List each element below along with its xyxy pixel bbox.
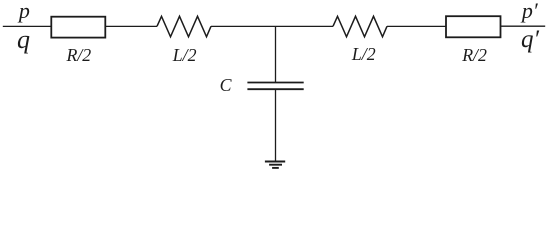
node q label <box>17 27 30 53</box>
value label C <box>220 77 232 95</box>
inductor L/2 (right, zigzag) <box>333 16 387 37</box>
resistor R/2 (right) <box>446 16 501 37</box>
resistor R/2 (left) <box>51 17 105 38</box>
wire R/2 to right terminal <box>501 25 546 27</box>
value label R/2 right <box>462 47 487 65</box>
value label L/2 left <box>173 47 197 65</box>
wire left terminal to R/2 <box>3 25 52 27</box>
ground <box>265 162 285 168</box>
capacitor C top plate <box>247 82 303 84</box>
node p' label <box>522 0 538 22</box>
value label L/2 right <box>352 46 376 64</box>
wire capacitor stem bottom <box>275 89 277 161</box>
value label R/2 left <box>67 47 92 65</box>
capacitor C bottom plate <box>247 88 303 90</box>
inductor L/2 (left, zigzag) <box>157 16 211 37</box>
node q' label <box>521 27 539 52</box>
wire L/2 to R/2 (right) <box>387 25 446 27</box>
node p label <box>19 0 30 22</box>
wire L/2 to node and node to right L/2 <box>211 25 333 27</box>
wire R/2 to L/2 <box>105 25 157 27</box>
wire capacitor stem top <box>275 26 277 82</box>
